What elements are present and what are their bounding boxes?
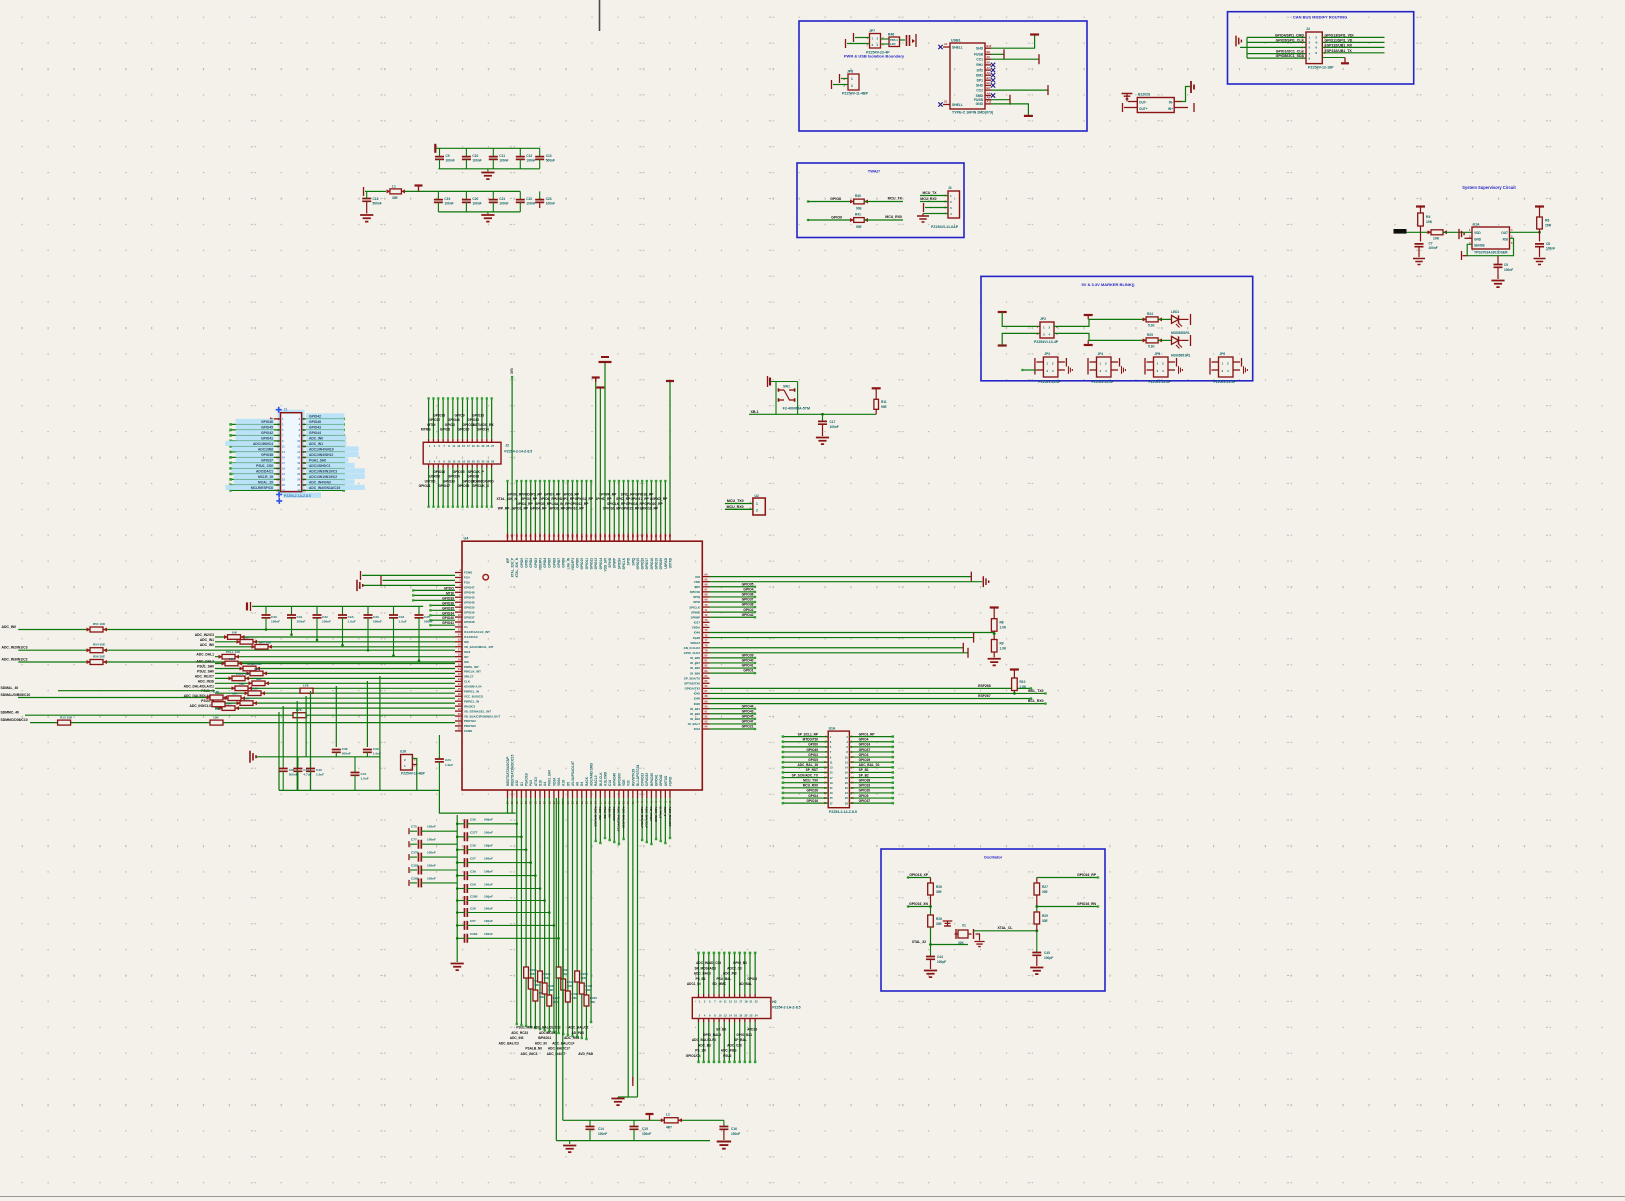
svg-text:ADC_BAL3: ADC_BAL3 <box>694 972 711 976</box>
ground cap column <box>451 964 464 971</box>
MCU right short wire pin 8 <box>710 611 756 613</box>
svg-text:GPIO2: GPIO2 <box>747 977 757 981</box>
svg-text:GPIO8: GPIO8 <box>830 197 841 201</box>
connector H2 <box>692 998 771 1019</box>
left short wire MTDI <box>413 594 455 596</box>
J1 value label <box>283 493 321 498</box>
svg-text:R40: R40 <box>855 194 861 198</box>
svg-text:100nF: 100nF <box>484 894 493 898</box>
power stub right of L1 <box>418 186 420 191</box>
svg-text:GPIO38: GPIO38 <box>261 453 273 457</box>
svg-text:SHELL: SHELL <box>952 46 963 50</box>
ground at U1 pin2 <box>1465 237 1473 239</box>
left pin3 ground wire <box>363 584 455 586</box>
capacitor C77 <box>410 843 417 845</box>
H2 pin 8 wire up ADC_IN3 <box>734 994 736 998</box>
net SDMMC_D08 row <box>30 722 455 724</box>
svg-text:PSALB_N0: PSALB_N0 <box>525 1047 542 1051</box>
bottom elbow pins 1-2 <box>507 798 509 813</box>
MCU top wire pin 18 <box>585 481 587 534</box>
MCU left pin 24 <box>455 685 462 687</box>
svg-text:JP3: JP3 <box>1044 352 1050 356</box>
svg-text:GPIO4: GPIO4 <box>859 738 869 742</box>
svg-text:SPIQ: SPIQ <box>631 557 635 565</box>
svg-text:ADC2_C3: ADC2_C3 <box>727 966 742 970</box>
bottom vertical to rail2 <box>555 798 557 1141</box>
svg-text:VDDA: VDDA <box>692 626 701 630</box>
svg-text:C15: C15 <box>642 1127 648 1131</box>
svg-text:500nF: 500nF <box>289 773 298 777</box>
svg-text:R26: R26 <box>936 885 942 889</box>
svg-text:21: 21 <box>830 786 833 790</box>
svg-text:100nF: 100nF <box>1504 268 1513 272</box>
MCU bottom pin 1 <box>507 790 509 798</box>
net ADC_IN0 row <box>18 629 455 631</box>
ground bottom elbow <box>611 1099 624 1106</box>
crystal X1 <box>958 930 968 938</box>
wire J3 pin1 MCU_TX <box>920 195 948 197</box>
wire JP8 pin1 <box>841 78 848 80</box>
ground below C9 <box>1491 281 1504 288</box>
svg-text:27: 27 <box>491 444 494 448</box>
MCU bottom pin 6 <box>530 790 532 798</box>
MCU top pin 1 <box>507 534 509 542</box>
MCU left pin 25 <box>455 690 462 692</box>
svg-text:C9: C9 <box>1504 263 1508 267</box>
svg-text:XTAL_32K_N_: XTAL_32K_N_ <box>496 497 518 501</box>
svg-text:GPIO5: GPIO5 <box>808 758 818 762</box>
svg-text:GPIO4: GPIO4 <box>543 558 547 568</box>
svg-text:17: 17 <box>739 1000 742 1004</box>
resistor R26 <box>930 878 932 884</box>
MCU right pin 27 <box>702 708 709 710</box>
svg-text:PZ254V-12-18P: PZ254V-12-18P <box>1308 66 1334 70</box>
resistor R24 <box>1146 317 1158 322</box>
svg-text:28: 28 <box>845 801 848 805</box>
capacitor C12 <box>519 148 521 156</box>
MCU top pin 11 <box>553 534 555 542</box>
svg-text:24: 24 <box>845 791 848 795</box>
J1 selection cross top <box>276 407 282 413</box>
svg-text:C8: C8 <box>1546 242 1550 246</box>
svg-text:SPICLK_RP: SPICLK_RP <box>607 502 626 506</box>
svg-text:GPIO42: GPIO42 <box>742 613 754 617</box>
svg-text:VDDA3: VDDA3 <box>690 641 700 645</box>
capacitor C8 <box>1535 244 1544 247</box>
net ADC_DAL1 row <box>215 656 455 658</box>
svg-text:FUSB: FUSB <box>974 53 984 57</box>
MCU left pin 6 <box>455 596 462 598</box>
svg-text:OUT-: OUT- <box>1139 101 1147 105</box>
svg-text:ADC_RC23: ADC_RC23 <box>511 1031 528 1035</box>
capacitor C40 <box>310 757 312 768</box>
svg-text:PZ254V-11-4BP: PZ254V-11-4BP <box>842 92 869 96</box>
MCU right long wire pin 13 <box>710 637 974 639</box>
MCU right pin 5 <box>702 596 709 598</box>
svg-text:500nF: 500nF <box>373 620 382 624</box>
MCU bottom pin 13 <box>562 790 564 798</box>
svg-text:PGA1_SH0: PGA1_SH0 <box>309 458 326 462</box>
MCU right pin 17 <box>702 657 709 659</box>
H2 pin 24 wire down AVD13 <box>754 1019 756 1023</box>
svg-text:SPID_RP: SPID_RP <box>616 497 631 501</box>
MCU left pin 14 <box>455 636 462 638</box>
svg-text:JP8: JP8 <box>847 70 853 74</box>
connector J2 <box>423 442 501 464</box>
svg-text:GPIO16: GPIO16 <box>641 558 645 570</box>
MCU top wire pin 25 <box>618 481 620 534</box>
MCU top wire pin 19 <box>590 481 592 534</box>
resistor cluster R81 <box>584 995 589 1006</box>
svg-text:SPIWP_RP: SPIWP_RP <box>599 492 617 496</box>
svg-text:C12: C12 <box>526 154 532 158</box>
svg-text:13: 13 <box>457 444 460 448</box>
MCU bottom pin 25 <box>618 790 620 798</box>
power tap on rail1 <box>649 1115 651 1121</box>
MCU bottom pin 35 <box>664 790 666 798</box>
svg-text:SP_B2: SP_B2 <box>859 773 869 777</box>
MCU U4 body <box>462 541 702 790</box>
H2 pin 16 wire down ADC_BAL/CLF3 <box>713 1019 715 1023</box>
ground X1 case <box>943 921 953 926</box>
svg-text:TWAI?: TWAI? <box>868 169 881 174</box>
ground below C44 <box>924 971 937 978</box>
svg-text:50: 50 <box>561 534 565 538</box>
svg-text:AVD_3: AVD_3 <box>663 807 667 817</box>
svg-text:C34: C34 <box>399 615 405 619</box>
svg-text:PZ254V-22-4P: PZ254V-22-4P <box>1092 380 1115 384</box>
CAN right wire ESP232/UB1_RX <box>1322 46 1384 48</box>
svg-text:GPIO45: GPIO45 <box>464 595 475 599</box>
svg-text:57: 57 <box>594 534 598 538</box>
cap column rail <box>456 815 458 962</box>
svg-text:AVD13: AVD13 <box>747 1028 757 1032</box>
svg-text:U1: U1 <box>464 625 468 629</box>
left short wire GPIO41 <box>430 624 455 626</box>
U1A left wire GPIO0 <box>783 746 828 748</box>
J1 left wire MCAL_29 <box>231 484 281 486</box>
capacitor C279 <box>410 856 417 858</box>
MCU top pin 10 <box>548 534 550 542</box>
J1 left wire MCLR/ESP/C6 <box>231 489 281 491</box>
svg-text:C40: C40 <box>316 768 322 772</box>
svg-text:IO26: IO26 <box>694 702 701 706</box>
J2 pin 27 wire down net SPICLK_N <box>486 464 488 468</box>
resistor R50 <box>90 627 103 632</box>
H2 pin 9 wire up ADC2_C3 <box>739 994 741 998</box>
svg-text:GPIO18: GPIO18 <box>433 413 445 417</box>
svg-text:PZ254VI-11-6AP: PZ254VI-11-6AP <box>931 225 959 229</box>
jumper JP4 <box>1097 357 1112 377</box>
svg-text:ADC_IN3S: ADC_IN3S <box>721 1049 737 1053</box>
MCU right short wire pin 18 <box>710 662 756 664</box>
MCU right short wire pin 30 <box>710 723 756 725</box>
MCU top pin 6 <box>530 534 532 542</box>
power tap above R10 <box>1010 668 1019 670</box>
svg-text:GPIO2: GPIO2 <box>808 753 818 757</box>
svg-text:62: 62 <box>617 534 621 538</box>
svg-text:PZ254V-11-4BP: PZ254V-11-4BP <box>401 772 426 776</box>
wire vertical drop <box>278 712 280 790</box>
svg-text:V33: V33 <box>627 780 631 786</box>
svg-text:C77: C77 <box>411 838 417 842</box>
supervisor U1 <box>1472 227 1510 249</box>
CAN left wire gnd row <box>1247 46 1306 48</box>
wire vertical drop <box>366 681 368 747</box>
svg-text:GPIO4/SPI1_CMD: GPIO4/SPI1_CMD <box>1275 33 1305 37</box>
connector J3 <box>948 191 960 218</box>
J1 right wire GPIO42 <box>302 418 344 420</box>
svg-text:C33: C33 <box>373 615 379 619</box>
J1 right wire ADC_IN4/GN1A/C19 <box>302 489 344 491</box>
svg-text:R9: R9 <box>1000 642 1004 646</box>
svg-text:SPIQ_RP: SPIQ_RP <box>621 492 636 496</box>
svg-text:GPIO44: GPIO44 <box>742 704 754 708</box>
MCU left pin 9 <box>455 611 462 613</box>
H2 pin 3 wire up ADC_BAL3 <box>708 994 710 998</box>
svg-text:C10: C10 <box>472 154 478 158</box>
MCU top pin 15 <box>572 534 574 542</box>
MCU top wire pin 6 <box>530 481 532 534</box>
svg-text:C/PAD33: C/PAD33 <box>645 773 649 786</box>
MCU right pin 26 <box>702 703 709 705</box>
svg-text:GPIO17: GPIO17 <box>428 418 440 422</box>
svg-text:GPIO7: GPIO7 <box>557 558 561 568</box>
svg-text:C23: C23 <box>546 197 552 201</box>
isolated DCDC module B1202 <box>1137 98 1174 113</box>
MCU bottom bus wire pin 7 <box>534 798 536 1028</box>
MCU top pin 34 <box>660 534 662 542</box>
capacitor C6 output <box>900 39 906 41</box>
MCU top pin 33 <box>655 534 657 542</box>
svg-text:C39: C39 <box>373 747 379 751</box>
capacitor C9 <box>439 148 441 156</box>
net ADC_DAL5/DLA/C5 row <box>215 697 455 699</box>
svg-text:PWRCL_IN: PWRCL_IN <box>464 690 479 694</box>
MCU top pin 21 <box>599 534 601 542</box>
MCU top wire pin 24 <box>613 481 615 534</box>
MCU left pin 2 <box>455 576 462 578</box>
svg-text:C36: C36 <box>470 818 476 822</box>
H2 pin 12 wire up GPIO2 <box>754 994 756 998</box>
MCU bottom pin 16 <box>576 790 578 798</box>
lower-left rail 2 <box>279 790 516 813</box>
svg-text:VDD: VDD <box>694 580 700 584</box>
svg-text:ADC_BAL/CLF3: ADC_BAL/CLF3 <box>692 1038 716 1042</box>
J2 pin 6 wire up net GPIO3 <box>452 439 454 443</box>
svg-text:U0RXD: U0RXD <box>664 557 668 568</box>
svg-text:B12: B12 <box>987 44 992 48</box>
svg-text:U0RXD_RP: U0RXD_RP <box>650 497 668 501</box>
MCU right pin 29 <box>702 718 709 720</box>
svg-text:22: 22 <box>477 460 480 464</box>
MCU left pin 15 <box>455 641 462 643</box>
svg-text:GPIO10: GPIO10 <box>580 558 584 570</box>
svg-text:100nF: 100nF <box>499 159 508 163</box>
capacitor C277 <box>465 832 468 841</box>
capacitor C59 <box>465 884 468 893</box>
MCU right pin 12 <box>702 631 709 633</box>
svg-text:SPICLK_P: SPICLK_P <box>468 470 485 474</box>
svg-text:AD_PA3: AD_PA3 <box>571 1031 584 1035</box>
svg-text:PZ254V-22-4P: PZ254V-22-4P <box>1038 380 1061 384</box>
svg-text:IO48: IO48 <box>694 697 701 701</box>
svg-text:PZ254-2-14-Z-8.5: PZ254-2-14-Z-8.5 <box>829 810 857 814</box>
svg-text:B/PAD20: B/PAD20 <box>650 773 654 786</box>
wire U1 OUT to right <box>1510 231 1540 233</box>
svg-text:10K: 10K <box>232 631 238 635</box>
H2 pin 5 wire up ADC_IN/AD_C33 <box>718 994 720 998</box>
J1 right wire PGA1_SH0 <box>302 462 344 464</box>
svg-text:52: 52 <box>571 534 575 538</box>
J1 left wire ADC1/IN9/C4 <box>231 445 281 447</box>
svg-text:OUT+: OUT+ <box>1139 107 1148 111</box>
svg-text:10K: 10K <box>534 983 540 987</box>
svg-text:L1: L1 <box>392 185 396 189</box>
svg-text:10K: 10K <box>581 976 587 980</box>
svg-text:C57: C57 <box>470 919 476 923</box>
svg-text:GPIO_CLK3: GPIO_CLK3 <box>684 651 701 655</box>
svg-text:C57: C57 <box>470 856 476 860</box>
MCU top wire pin 32 <box>650 481 652 534</box>
svg-text:ESP232/UB1_TX: ESP232/UB1_TX <box>1325 49 1353 53</box>
J1 left wire MCLR_19 <box>231 478 281 480</box>
svg-text:GPIO46: GPIO46 <box>464 600 475 604</box>
svg-text:100nF: 100nF <box>526 202 535 206</box>
svg-text:GPIO37: GPIO37 <box>464 615 475 619</box>
svg-text:PA3: PA3 <box>529 780 533 786</box>
svg-text:GPIO8/I2C1_SDA: GPIO8/I2C1_SDA <box>1276 54 1305 58</box>
J1 left wire GPIO41 <box>231 440 281 442</box>
svg-text:ADC_C23: ADC_C23 <box>727 1043 742 1047</box>
staircase cap rail <box>252 605 423 607</box>
header J4 <box>1306 32 1322 64</box>
net XTAL_CL wire <box>974 930 1037 932</box>
LED LED2 <box>1158 339 1171 341</box>
svg-text:500nF: 500nF <box>373 202 382 206</box>
svg-text:GPIO33: GPIO33 <box>859 784 871 788</box>
svg-text:CC1: CC1 <box>976 58 983 62</box>
svg-text:VDD3P3_RP: VDD3P3_RP <box>523 492 543 496</box>
svg-text:U0TXD: U0TXD <box>425 479 436 483</box>
net PSU2_SH0 row <box>215 672 455 674</box>
MCU top wire pin 17 <box>581 481 583 534</box>
svg-text:100nF: 100nF <box>484 831 493 835</box>
J2 pin 12 wire up net GPIO13 <box>481 439 483 443</box>
U1A right wire GPIO24 <box>849 746 892 748</box>
wire XB.1 rail <box>749 413 876 415</box>
net ADC_IN1/C7 row <box>215 677 455 679</box>
MCU bottom pin 21 <box>599 790 601 798</box>
svg-text:SP_SCK/ADC_TX: SP_SCK/ADC_TX <box>792 773 819 777</box>
svg-text:100nF: 100nF <box>830 425 839 429</box>
svg-text:F2-4000MA-5TM: F2-4000MA-5TM <box>783 407 810 411</box>
MCU top wire pin 7 <box>534 481 536 534</box>
svg-text:R4: R4 <box>1426 215 1430 219</box>
MCU bottom pin 29 <box>637 790 639 798</box>
svg-text:GPIO16_RP: GPIO16_RP <box>1077 873 1097 877</box>
svg-text:SENSE: SENSE <box>1474 244 1485 248</box>
MCU right long wire pin 23 <box>710 687 1032 689</box>
svg-text:GPIO6: GPIO6 <box>552 558 556 568</box>
MCU top pin 18 <box>585 534 587 542</box>
resistor R8 <box>991 619 997 632</box>
MCU right short wire pin 29 <box>710 718 756 720</box>
svg-text:60: 60 <box>608 534 612 538</box>
U1A left wire GPIO16 <box>783 802 828 804</box>
MCU left pin 12 <box>455 626 462 628</box>
svg-text:RH1: RH1 <box>976 63 983 67</box>
svg-text:C13: C13 <box>546 154 552 158</box>
MCU top wire pin 9 <box>544 481 546 534</box>
svg-text:LED1: LED1 <box>1171 310 1179 314</box>
svg-text:FGND: FGND <box>464 571 472 575</box>
svg-text:C19: C19 <box>444 197 450 201</box>
svg-text:XB.1: XB.1 <box>751 410 759 414</box>
svg-text:GPIO13: GPIO13 <box>472 413 484 417</box>
MCU left pin 22 <box>455 675 462 677</box>
ground CAN left <box>1240 46 1247 48</box>
svg-text:GPIO8_RP: GPIO8_RP <box>549 507 566 511</box>
svg-text:ADC_BAL/C17: ADC_BAL/C17 <box>548 1047 570 1051</box>
svg-text:100nF: 100nF <box>1429 246 1438 250</box>
resistor row ADC_DAL1 <box>222 654 235 659</box>
J2 pin 13 wire up net GPIO14 <box>486 439 488 443</box>
svg-text:100nF: 100nF <box>642 1132 651 1136</box>
svg-text:10K: 10K <box>232 692 238 696</box>
svg-text:28: 28 <box>491 460 494 464</box>
resistor cluster R78 <box>565 991 570 1002</box>
resistor cluster R79 <box>575 971 580 982</box>
svg-text:ADC_IN1: ADC_IN1 <box>200 638 214 642</box>
svg-text:R24: R24 <box>1147 312 1153 316</box>
svg-text:GPIO44: GPIO44 <box>309 431 321 435</box>
svg-text:IO46: IO46 <box>694 631 701 635</box>
svg-text:ESP232/UB1_RX: ESP232/UB1_RX <box>1325 43 1353 47</box>
net MCLR row <box>58 690 215 692</box>
svg-text:GPIO3: GPIO3 <box>445 423 455 427</box>
wire B1202 IN+ <box>1174 107 1188 109</box>
svg-text:GPIO10_RP: GPIO10_RP <box>565 507 584 511</box>
MCU right long wire pin 25 <box>710 698 1032 700</box>
wire MCU_RX0 <box>725 508 753 510</box>
MCU right short wire pin 7 <box>710 606 756 608</box>
MCU right pin 4 <box>702 591 709 593</box>
svg-text:GPIO38: GPIO38 <box>464 620 475 624</box>
wire R5 to U1 pin1 <box>1443 231 1472 233</box>
svg-text:GPIO35: GPIO35 <box>742 582 754 586</box>
svg-text:GPIO19_RP: GPIO19_RP <box>640 507 659 511</box>
svg-text:24: 24 <box>755 1014 758 1018</box>
capacitor C33 <box>367 606 369 614</box>
capacitor C23 end <box>539 191 541 199</box>
svg-text:53: 53 <box>575 534 579 538</box>
svg-text:CC2: CC2 <box>976 88 983 92</box>
svg-text:A8: A8 <box>987 96 991 100</box>
svg-text:65: 65 <box>631 534 635 538</box>
svg-text:ADC_BAL/CLF: ADC_BAL/CLF <box>645 807 649 829</box>
capacitor C24 <box>438 735 440 759</box>
U1A left wire GPIO4 <box>783 797 828 799</box>
svg-text:14: 14 <box>729 1014 732 1018</box>
MCU top wire pin 10 <box>548 481 550 534</box>
capacitor C39 <box>465 871 468 880</box>
svg-text:GPIO5/SPI1_CLK: GPIO5/SPI1_CLK <box>1276 38 1305 42</box>
svg-text:23: 23 <box>830 791 833 795</box>
svg-text:10K: 10K <box>226 702 232 706</box>
svg-text:WP_RP: WP_RP <box>498 507 511 511</box>
svg-text:GPIO38: GPIO38 <box>742 603 754 607</box>
